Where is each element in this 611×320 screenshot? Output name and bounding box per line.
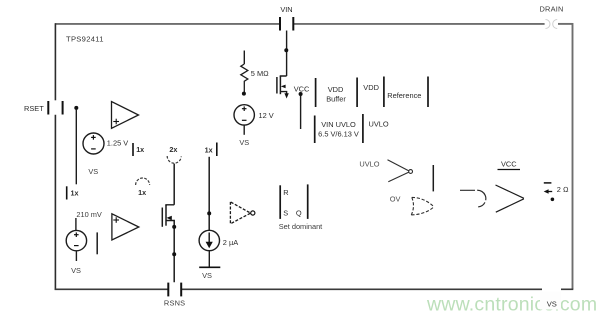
comparator U2 <box>112 214 139 240</box>
svg-text:TPS92411: TPS92411 <box>66 35 104 44</box>
svg-text:UVLO: UVLO <box>369 119 389 128</box>
transistor M2 drain bend <box>166 205 174 206</box>
wire RSET net down <box>75 109 77 184</box>
svg-text:VS: VS <box>239 138 249 147</box>
svg-text:2x: 2x <box>169 145 177 154</box>
svg-text:6.5 V/6.13 V: 6.5 V/6.13 V <box>318 130 359 139</box>
stub bar right of 210mV source <box>96 232 98 254</box>
wire 2x mirror down to M2 <box>173 164 175 205</box>
IC boundary box top border <box>55 23 572 25</box>
current source 2uA arrow <box>208 233 210 244</box>
wire mirror down to 2uA <box>208 157 210 231</box>
current source 2uA circle <box>199 230 219 250</box>
transistor M2 source lead <box>166 221 174 283</box>
svg-text:R: R <box>283 188 288 197</box>
comparator U2 plus <box>113 217 119 223</box>
gate drive left arrow <box>548 191 553 193</box>
transistor M2 body arrow <box>167 216 172 220</box>
svg-text:5 MΩ: 5 MΩ <box>251 69 269 78</box>
node dot at inverter input level <box>207 211 211 215</box>
node dot above 12V source <box>242 92 246 96</box>
latch SR right bar <box>307 184 309 219</box>
inverter U3 bubble <box>251 211 255 215</box>
svg-text:1.25 V: 1.25 V <box>107 139 128 148</box>
voltage source 210 mV plus minus <box>74 232 79 245</box>
voltage source 12 V circle <box>234 105 254 125</box>
voltage source 12 V plus <box>242 106 247 120</box>
svg-text:VIN: VIN <box>280 5 292 14</box>
block Reference left bar <box>383 77 385 108</box>
latch SR left bar <box>279 185 281 219</box>
svg-text:VS: VS <box>88 167 98 176</box>
svg-text:VCC: VCC <box>501 159 517 168</box>
voltage source 1.25 V plus minus <box>91 135 96 149</box>
mirror 1x bar (third) <box>216 143 218 157</box>
resistor R 5 MOhm zigzag <box>241 64 248 92</box>
transistor M1 channel bar <box>279 76 281 94</box>
svg-text:RSNS: RSNS <box>164 299 185 308</box>
IC boundary box left border <box>54 23 56 290</box>
pin DRAIN gap arcs <box>546 20 558 29</box>
svg-text:Q: Q <box>296 208 302 217</box>
gate G1 NAND edges <box>388 160 409 182</box>
wire 210mV source top lead <box>75 218 77 231</box>
svg-text:1x: 1x <box>71 188 79 197</box>
gate G2 OR <box>411 197 434 215</box>
svg-text:VDD: VDD <box>328 85 344 94</box>
mirror 1x bar (right of 1.25V) <box>132 143 134 156</box>
node dot below 2 Ohm <box>551 198 555 202</box>
transistor M2 channel bar <box>165 205 167 225</box>
mirror 2x half circle <box>167 156 181 163</box>
svg-text:VS: VS <box>71 266 81 275</box>
wire 12V source to VS <box>243 125 245 135</box>
svg-text:RSET: RSET <box>24 104 44 113</box>
wire down to OR gate <box>432 165 434 191</box>
svg-text:UVLO: UVLO <box>359 160 379 169</box>
pin RSET bars <box>48 101 62 115</box>
svg-text:2 µA: 2 µA <box>223 238 238 247</box>
block Reference right bar <box>427 77 429 108</box>
transistor M1 body arrow <box>281 85 286 89</box>
voltage source 1.25 V circle <box>83 133 104 154</box>
wire 210mV source bottom lead <box>75 251 77 261</box>
svg-text:DRAIN: DRAIN <box>540 5 564 14</box>
voltage source 210 mV circle <box>66 230 86 250</box>
svg-text:VIN UVLO: VIN UVLO <box>321 120 356 129</box>
comparator U1 <box>112 102 139 129</box>
mirror 1x top-half circle (fourth) <box>136 178 150 185</box>
block VDD Buffer right bar <box>356 78 358 108</box>
mirror 1x bar (fifth, left) <box>66 186 68 199</box>
transistor M2 gate bar <box>161 208 163 227</box>
node dot VCC <box>299 92 303 96</box>
svg-text:VCC: VCC <box>294 84 310 93</box>
svg-text:Reference: Reference <box>387 91 421 100</box>
gate G3 arc <box>460 190 486 207</box>
svg-text:2 Ω: 2 Ω <box>557 185 569 194</box>
svg-text:www.cntronics.com: www.cntronics.com <box>426 294 597 316</box>
svg-text:210 mV: 210 mV <box>76 210 102 219</box>
resistor 2 Ohm bar <box>544 182 552 184</box>
node dot M2 source lower <box>172 252 176 256</box>
VCC rail underline <box>498 169 521 171</box>
IC boundary box right border <box>572 23 574 289</box>
svg-text:VS: VS <box>202 271 212 280</box>
wire VIN down to M1 drain <box>286 31 288 77</box>
driver U4 edges <box>496 185 524 212</box>
node dot M2 source upper <box>172 225 176 229</box>
pin VS white patch <box>540 292 561 310</box>
svg-text:S: S <box>283 208 288 217</box>
inverter U3 <box>230 202 250 224</box>
svg-text:1x: 1x <box>138 188 146 197</box>
transistor M1 source lead with arrow <box>280 92 286 95</box>
transistor M1 drain bend <box>280 76 286 77</box>
svg-text:OV: OV <box>390 195 401 204</box>
comparator U1 plus <box>113 119 119 125</box>
block VIN UVLO right bar <box>362 114 364 143</box>
block VDD Buffer left bar <box>315 78 317 107</box>
node dot on VIN wire <box>284 48 288 52</box>
gate G1 bubble <box>409 170 413 174</box>
block VIN UVLO left bar <box>314 116 316 144</box>
pin VIN bars <box>280 17 293 31</box>
resistor R 5 MOhm lead <box>243 51 245 65</box>
svg-text:Set dominant: Set dominant <box>279 222 323 231</box>
ground bar VS <box>199 266 220 268</box>
svg-text:VS: VS <box>547 300 557 309</box>
svg-text:12 V: 12 V <box>259 111 274 120</box>
node dot RSET net <box>74 106 78 110</box>
svg-text:1x: 1x <box>136 145 144 154</box>
IC boundary box bottom border <box>55 288 574 290</box>
wire VCC down <box>300 96 302 130</box>
pin RSNS bars <box>168 283 181 297</box>
wire 2uA to ground <box>208 251 210 267</box>
svg-text:VDD: VDD <box>363 83 379 92</box>
svg-text:Buffer: Buffer <box>326 95 346 104</box>
svg-text:1x: 1x <box>205 145 213 154</box>
transistor M1 gate bar <box>276 77 278 94</box>
